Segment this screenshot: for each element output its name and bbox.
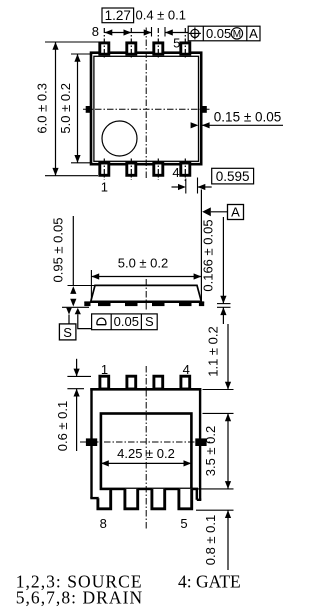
- dim 5.0 dimension line: [77, 54, 79, 163]
- svg-text:5: 5: [173, 36, 180, 51]
- dim 0.166 bottom tick: [217, 306, 231, 308]
- TOPVIEW: [35, 7, 284, 194]
- plane tick pad top: [203, 412, 234, 414]
- dim 0.6 body top extension line: [67, 388, 84, 390]
- dim 0.595 body edge extension: [197, 178, 199, 194]
- pin 2 stub (bottom view top row): [127, 376, 136, 389]
- dim 0.595 left tail: [172, 186, 179, 188]
- FCF divider 2: [246, 26, 248, 41]
- dim 5.0 arrow up: [74, 54, 80, 62]
- svg-text:M: M: [233, 29, 241, 40]
- dim 1.1 arrow down: [225, 382, 231, 390]
- horizontal centerline of body: [83, 108, 210, 110]
- dim 3.5 / 0.8 arrow down: [225, 481, 231, 489]
- left side tab: [86, 106, 92, 113]
- pin-1 index circle: [102, 121, 137, 156]
- dim 0.595 arrow right: [198, 184, 206, 190]
- dim 0.95 dimension line upper stem: [72, 216, 74, 286]
- svg-text:0.4 ± 0.1: 0.4 ± 0.1: [136, 7, 187, 22]
- body top edge (bottom view): [90, 388, 201, 391]
- body left edge (bottom view): [90, 388, 92, 498]
- lower stem of 0.166 dim: [222, 307, 224, 324]
- svg-text:5.0 ± 0.2: 5.0 ± 0.2: [58, 83, 73, 134]
- profile of surface symbol: [97, 318, 106, 325]
- svg-text:0.166 ± 0.05: 0.166 ± 0.05: [201, 219, 216, 291]
- dim 1.27 arrow left: [105, 29, 113, 35]
- dim 0.15 arrow right: [202, 122, 210, 128]
- dim 0.95 top extension line: [68, 285, 95, 287]
- right side tab (bottom view): [195, 438, 206, 446]
- vertical centerline (bottom view): [145, 366, 147, 530]
- svg-text:3.5 ± 0.2: 3.5 ± 0.2: [203, 426, 218, 477]
- dim 0.166 top tick: [217, 303, 231, 305]
- dim 0.595 pin4 centerline extension: [185, 179, 187, 194]
- lead foot 2 (side view): [125, 302, 138, 306]
- pin 7 centerline: [130, 28, 132, 58]
- dim 1.27 arrow right: [124, 29, 132, 35]
- svg-text:A: A: [249, 26, 258, 41]
- body bottom-right corner vertical: [196, 489, 198, 500]
- pin 8 (top row): [100, 43, 109, 54]
- dim 0.95 arrow down: [70, 299, 76, 307]
- svg-text:0.95 ± 0.05: 0.95 ± 0.05: [51, 218, 66, 283]
- dim 6.0 bottom extension line: [45, 175, 98, 177]
- datum S feature triangle: [66, 308, 72, 315]
- svg-text:0.05: 0.05: [114, 314, 139, 329]
- dim 4.25 dimension line: [101, 462, 191, 464]
- dim 0.166 upper stem: [222, 217, 224, 304]
- pin 6 lead (bottom view bottom row): [152, 489, 165, 509]
- svg-text:S: S: [145, 314, 154, 329]
- dim 0.6 arrow down: [74, 369, 80, 377]
- dim 5.0 side arrow right: [194, 273, 202, 279]
- plane tick lead tip: [196, 509, 234, 511]
- svg-text:5: 5: [180, 516, 187, 531]
- pin 2 (bottom row): [127, 163, 136, 175]
- pin 1 (bottom row): [100, 163, 109, 175]
- FCF position symbol circle: [191, 29, 199, 37]
- dim 0.4 arrow right: [165, 29, 173, 35]
- datum A box: [228, 205, 244, 220]
- dim 6.0 top extension line: [45, 41, 99, 43]
- seating base line (side view): [84, 301, 204, 303]
- pin 4 (bottom row): [181, 163, 190, 175]
- pin 3 centerline: [157, 159, 159, 181]
- dim 5.0 bottom extension line: [71, 162, 92, 164]
- pin 3 stub (bottom view top row): [154, 376, 163, 389]
- pin 7 (top row): [127, 43, 136, 54]
- package body inner outline (top view): [94, 56, 199, 161]
- SIDEVIEW: [51, 190, 244, 340]
- datum S leader stem: [68, 315, 70, 324]
- exposed pad inner rectangle: [101, 414, 191, 489]
- FOOTNOTE: [16, 572, 241, 608]
- right end lead nub (side view): [199, 302, 204, 306]
- FCF position symbol cross horizontal: [189, 32, 201, 34]
- package body outer outline (top view): [91, 53, 201, 165]
- FCF M modifier circle: [231, 28, 242, 39]
- dim 5.0 arrow down: [74, 155, 80, 163]
- right side tab: [201, 106, 207, 113]
- dim 0.4 arrow left: [144, 29, 152, 35]
- datum A leader: [211, 211, 228, 213]
- pin 1 stub (bottom view top row): [100, 376, 109, 389]
- datum A feature triangle: [202, 207, 211, 216]
- pin 6 (top row): [154, 43, 163, 54]
- dim 1.1 / 3.5 arrow up: [225, 413, 231, 421]
- dim 0.6 upper stem: [76, 359, 78, 377]
- pin 7 lead (bottom view bottom row): [125, 489, 138, 509]
- FCF position symbol cross vertical: [194, 27, 196, 39]
- dim 0.595 right tail: [198, 186, 212, 188]
- pin 5 centerline: [184, 28, 186, 58]
- dim 0.15 right tail: [202, 124, 283, 126]
- dim 0.95 arrow up: [70, 286, 76, 294]
- svg-text:0.8 ± 0.1: 0.8 ± 0.1: [203, 515, 218, 566]
- dim 0.595 arrow left: [178, 184, 186, 190]
- profile FCF divider 2: [140, 314, 142, 330]
- dimension 1.27 basic box: [102, 8, 134, 23]
- vertical centerline of body: [145, 28, 147, 179]
- svg-text:0.15 ± 0.05: 0.15 ± 0.05: [214, 109, 281, 124]
- dim 0.6 arrow up: [74, 389, 80, 397]
- dim 0.8 lower stem: [227, 510, 229, 570]
- pad bottom edge extension to corner: [191, 488, 199, 491]
- svg-text:1: 1: [101, 362, 108, 377]
- BOTTOMVIEW: [55, 324, 234, 570]
- pin 8 centerline: [103, 28, 105, 58]
- dim 0.6 lower stem: [76, 389, 78, 451]
- molded body trapezoid (side view): [91, 285, 202, 301]
- dim 6.0 arrow down: [52, 168, 58, 176]
- body bottom-left corner step: [90, 497, 99, 499]
- profile FCF leader stem: [78, 314, 92, 328]
- dim 6.0 dimension line: [55, 42, 57, 176]
- left side tab (bottom view): [86, 438, 97, 446]
- horizontal centerline (bottom view): [80, 441, 212, 443]
- pin 3 (bottom row): [154, 163, 163, 175]
- pin 5 lead (bottom view bottom row): [179, 489, 192, 509]
- plane tick body top: [203, 389, 234, 391]
- dim 0.4 right tail to FCF: [165, 32, 188, 34]
- dim 0.4 left tail: [131, 32, 151, 34]
- body right edge (bottom view): [199, 388, 201, 500]
- dim 0.166 arrow down: [220, 296, 226, 304]
- svg-text:4: 4: [172, 165, 179, 180]
- lead foot 4 (side view): [179, 302, 192, 306]
- dim 4.25 arrow left: [101, 460, 109, 466]
- dim 4.25 arrow right: [184, 460, 192, 466]
- datum S box: [59, 324, 76, 340]
- dim 6.0 arrow up: [52, 42, 58, 50]
- long extension line from body right edge down to side view: [200, 190, 202, 302]
- left end lead nub (side view): [84, 302, 90, 306]
- svg-text:1: 1: [101, 179, 108, 194]
- pin 4 centerline: [184, 159, 186, 182]
- dim 5.0 side dimension line: [91, 276, 201, 278]
- profile FCF leader arrow: [75, 308, 81, 314]
- svg-text:4.25 ± 0.2: 4.25 ± 0.2: [117, 446, 175, 461]
- dim 5.0 top extension line: [71, 53, 92, 55]
- dim 0.595 box: [212, 168, 254, 184]
- feature control frame box (position tolerance): [188, 26, 260, 41]
- svg-text:6.0 ± 0.3: 6.0 ± 0.3: [35, 83, 50, 134]
- pin 8 lead (bottom view bottom row): [98, 489, 111, 509]
- dim 1.27 line: [105, 32, 132, 34]
- dim 3.5 dimension line: [227, 413, 229, 489]
- dim 0.4 ext tick right: [164, 27, 166, 37]
- svg-text:S: S: [63, 325, 72, 340]
- pin 1 centerline: [103, 159, 105, 181]
- dim 1.1 upper stem: [227, 324, 229, 390]
- FCF divider 1: [202, 26, 204, 41]
- svg-text:5,6,7,8: DRAIN: 5,6,7,8: DRAIN: [16, 588, 143, 608]
- svg-text:8: 8: [92, 24, 99, 39]
- svg-text:0.595: 0.595: [216, 169, 250, 184]
- svg-text:4: GATE: 4: GATE: [178, 572, 241, 592]
- dim 5.0 side left extension line: [90, 270, 92, 299]
- body bottom-right corner step: [197, 499, 202, 501]
- svg-text:1.1 ± 0.2: 1.1 ± 0.2: [205, 326, 220, 377]
- pin 2 centerline: [130, 159, 132, 181]
- pin 5 (top row): [181, 43, 190, 54]
- lead foot 3 (side view): [152, 302, 165, 306]
- dim 0.4 ext tick left: [151, 27, 153, 37]
- seating plane S extension line: [62, 306, 89, 308]
- profile FCF divider 1: [110, 314, 112, 330]
- dim 5.0 side arrow left: [91, 273, 99, 279]
- pin 4 stub (bottom view top row): [181, 376, 190, 389]
- svg-text:0.05: 0.05: [206, 26, 231, 41]
- dim 0.15 arrow left: [191, 122, 199, 128]
- dim 0.8 arrow up: [225, 510, 231, 518]
- pin 6 centerline: [157, 28, 159, 58]
- svg-text:5.0 ± 0.2: 5.0 ± 0.2: [118, 256, 169, 271]
- lead foot 1 (side view): [98, 302, 111, 306]
- svg-text:4: 4: [183, 362, 190, 377]
- dim 0.166 arrow up: [220, 307, 226, 315]
- svg-text:8: 8: [100, 516, 107, 531]
- svg-text:0.6 ± 0.1: 0.6 ± 0.1: [55, 401, 70, 452]
- dim 0.6 pin top extension line: [67, 375, 91, 377]
- svg-text:A: A: [231, 205, 240, 220]
- side view vertical centerline: [145, 279, 147, 310]
- plane tick pad bottom: [196, 488, 234, 490]
- profile FCF box: [92, 314, 158, 330]
- svg-text:1.27: 1.27: [105, 8, 131, 23]
